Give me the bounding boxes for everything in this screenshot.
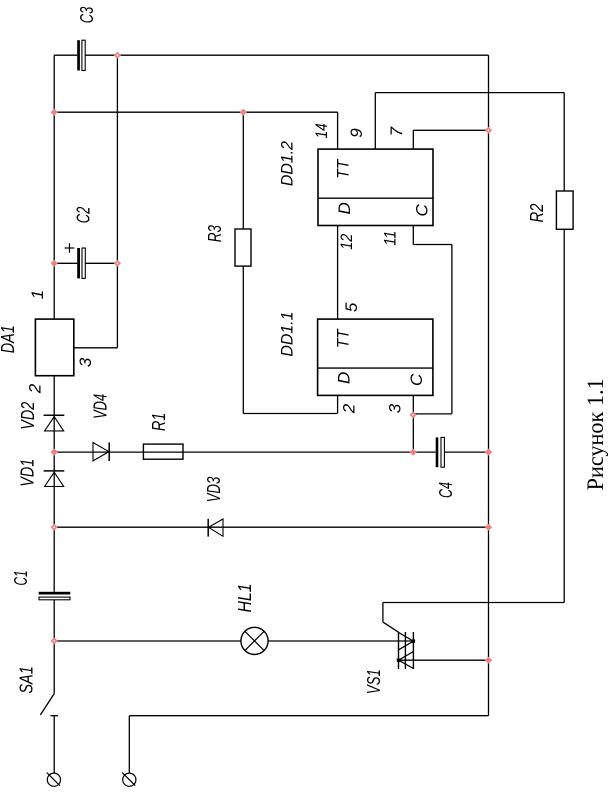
svg-text:VS1: VS1 bbox=[364, 669, 384, 694]
svg-text:SA1: SA1 bbox=[17, 666, 37, 694]
svg-text:2: 2 bbox=[339, 403, 358, 414]
svg-text:C2: C2 bbox=[74, 207, 94, 224]
svg-text:9: 9 bbox=[347, 128, 366, 138]
svg-text:VD1: VD1 bbox=[17, 459, 37, 487]
svg-text:C: C bbox=[413, 204, 432, 217]
svg-text:1: 1 bbox=[28, 290, 47, 299]
svg-text:D: D bbox=[334, 372, 353, 384]
svg-text:R3: R3 bbox=[205, 225, 225, 242]
svg-text:C1: C1 bbox=[11, 571, 31, 586]
svg-text:Рисунок 1.1: Рисунок 1.1 bbox=[583, 378, 609, 490]
svg-text:14: 14 bbox=[312, 123, 331, 138]
svg-text:3: 3 bbox=[76, 357, 95, 367]
svg-text:R1: R1 bbox=[149, 413, 169, 432]
svg-text:C3: C3 bbox=[77, 7, 97, 24]
svg-text:3: 3 bbox=[385, 403, 404, 413]
svg-text:12: 12 bbox=[337, 233, 356, 249]
svg-text:VD4: VD4 bbox=[91, 394, 111, 419]
svg-text:11: 11 bbox=[381, 231, 400, 246]
svg-text:2: 2 bbox=[25, 383, 44, 394]
svg-text:C: C bbox=[407, 373, 426, 386]
svg-text:HL1: HL1 bbox=[235, 584, 255, 613]
svg-text:VD3: VD3 bbox=[204, 477, 224, 503]
svg-text:TT: TT bbox=[334, 158, 353, 178]
svg-text:5: 5 bbox=[342, 302, 361, 312]
svg-text:C4: C4 bbox=[436, 482, 456, 498]
svg-text:VD2: VD2 bbox=[18, 402, 38, 430]
svg-text:DD1.1: DD1.1 bbox=[277, 312, 296, 357]
svg-text:DD1.2: DD1.2 bbox=[277, 141, 296, 187]
svg-text:7: 7 bbox=[387, 126, 406, 136]
svg-text:TT: TT bbox=[334, 328, 353, 348]
svg-text:DA1: DA1 bbox=[0, 325, 18, 353]
svg-text:R2: R2 bbox=[527, 204, 547, 223]
svg-text:D: D bbox=[335, 202, 354, 214]
